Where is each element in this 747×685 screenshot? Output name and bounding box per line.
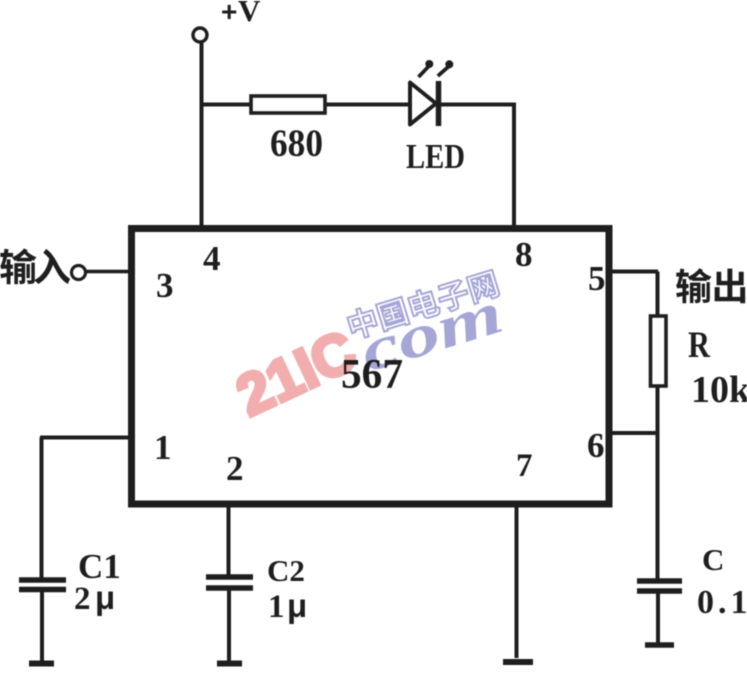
svg-text:7: 7 xyxy=(516,448,533,484)
svg-text:LED: LED xyxy=(406,137,465,176)
svg-text:V: V xyxy=(238,0,261,28)
svg-text:3: 3 xyxy=(156,266,174,305)
svg-text:+: + xyxy=(221,0,237,27)
svg-text:2: 2 xyxy=(226,449,244,488)
svg-text:1: 1 xyxy=(154,428,172,467)
svg-text:μ: μ xyxy=(95,579,115,616)
svg-text:567: 567 xyxy=(341,352,403,398)
svg-text:μ: μ xyxy=(287,587,307,624)
svg-text:680: 680 xyxy=(270,122,323,165)
svg-text:5: 5 xyxy=(588,259,606,298)
svg-text:1: 1 xyxy=(268,589,285,625)
svg-text:R: R xyxy=(688,325,711,366)
svg-text:6: 6 xyxy=(587,426,605,465)
svg-text:C: C xyxy=(702,542,724,577)
svg-text:8: 8 xyxy=(515,235,533,274)
svg-text:2: 2 xyxy=(74,581,91,617)
svg-text:0.1: 0.1 xyxy=(697,584,747,621)
svg-text:4: 4 xyxy=(203,239,221,278)
svg-text:10k: 10k xyxy=(691,369,747,411)
svg-text:C2: C2 xyxy=(267,553,305,588)
